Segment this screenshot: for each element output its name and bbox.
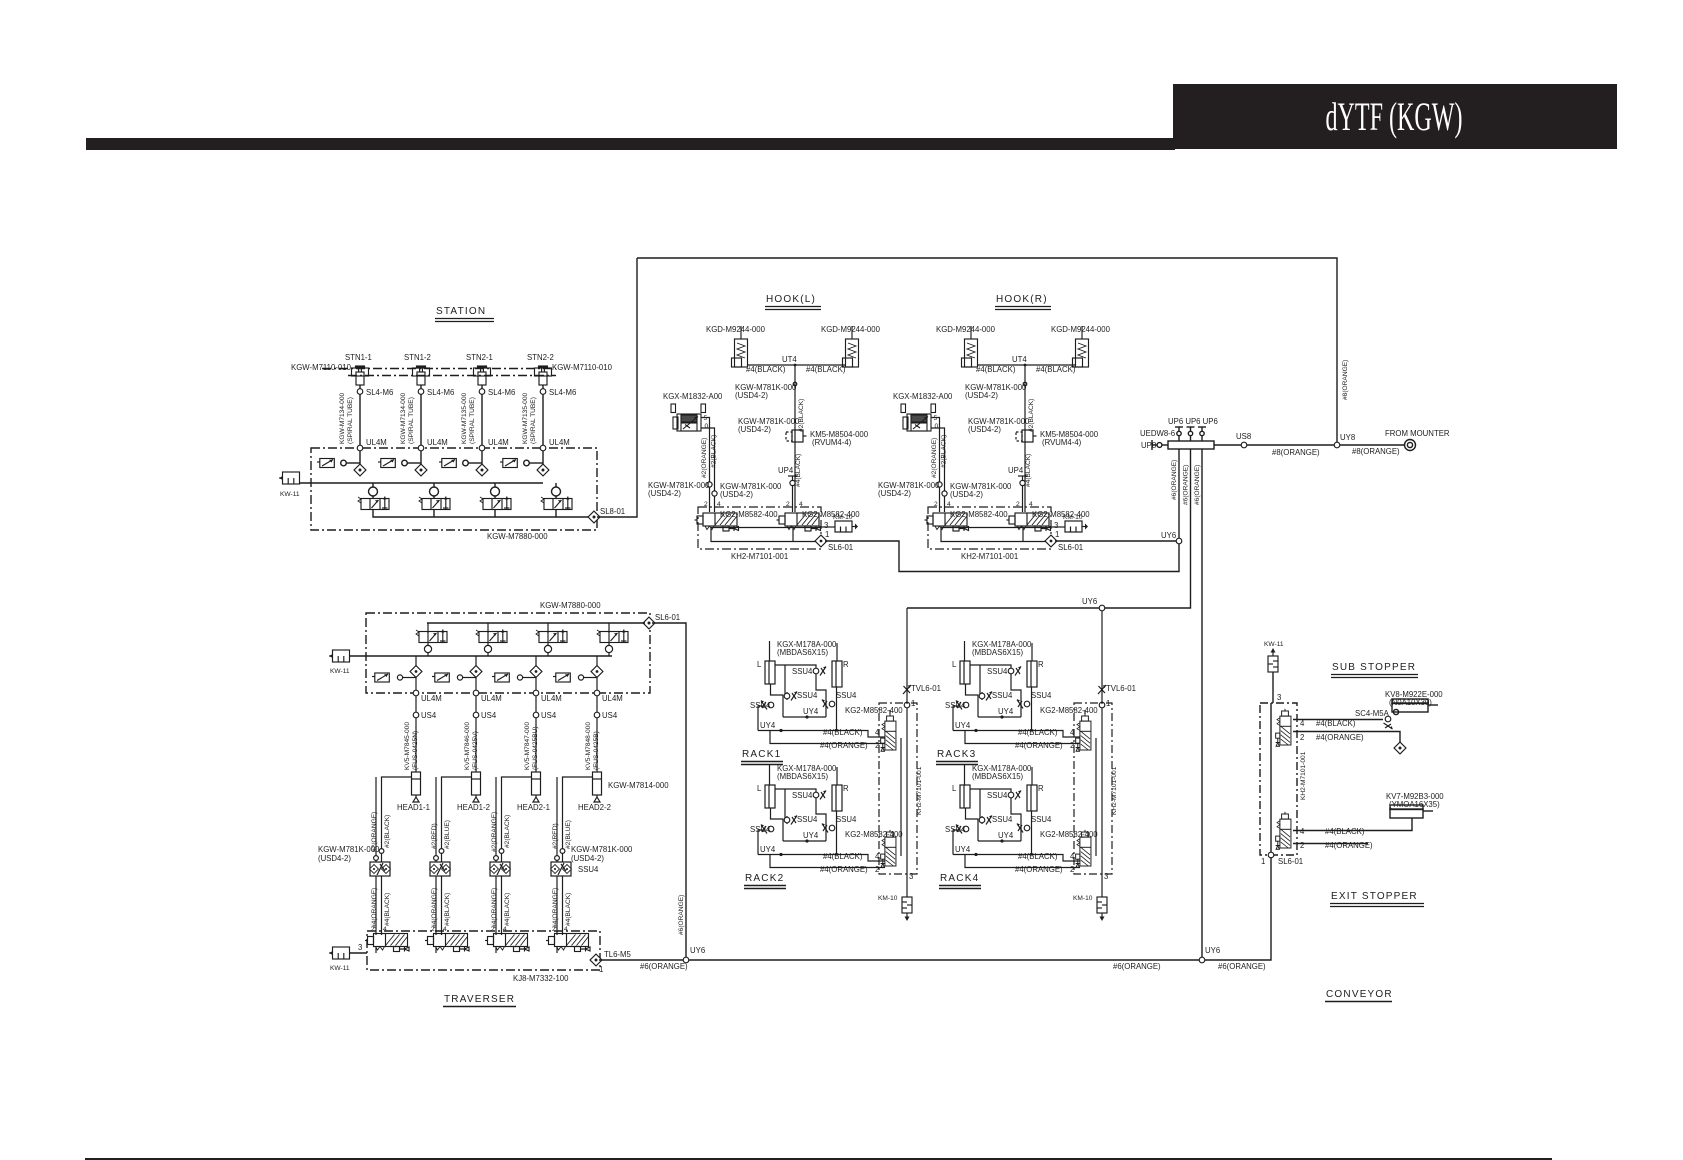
svg-text:KW-11: KW-11 xyxy=(280,491,300,498)
TRAVERSER column 1 xyxy=(365,623,447,953)
svg-text:(SPIRAL TUBE): (SPIRAL TUBE) xyxy=(347,397,354,444)
svg-text:KGW-M7134-000: KGW-M7134-000 xyxy=(400,392,407,444)
port TL6-M5 xyxy=(590,954,602,966)
svg-text:SL4-M6: SL4-M6 xyxy=(549,388,576,397)
svg-text:dYTF (KGW): dYTF (KGW) xyxy=(1326,94,1463,139)
svg-text:(FUS-0425B): (FUS-0425B) xyxy=(593,731,600,770)
svg-text:KGW-M7110-010: KGW-M7110-010 xyxy=(552,363,613,372)
label KGW-M781K-000 left xyxy=(318,845,380,863)
svg-text:2: 2 xyxy=(1300,733,1304,742)
svg-text:#6(ORANGE): #6(ORANGE) xyxy=(678,895,685,935)
wire HOOK(R) SL6-01 output to UY6 xyxy=(1055,540,1176,542)
svg-text:US4: US4 xyxy=(602,711,618,720)
svg-text:#4(BLACK): #4(BLACK) xyxy=(1316,719,1356,728)
svg-text:STN1-1: STN1-1 xyxy=(345,353,372,362)
svg-text:RACK3: RACK3 xyxy=(937,749,976,760)
svg-text:#4(ORANGE): #4(ORANGE) xyxy=(491,888,498,928)
svg-text:US4: US4 xyxy=(481,711,497,720)
manifold UEDW8-6 body xyxy=(1168,441,1214,449)
section title STATION xyxy=(435,306,494,322)
svg-text:4: 4 xyxy=(564,926,568,933)
STATION column 4 STN2-2 xyxy=(500,366,576,510)
svg-text:RACK1: RACK1 xyxy=(742,749,781,760)
svg-text:KV5-M7848-000: KV5-M7848-000 xyxy=(585,722,592,770)
svg-text:SUB STOPPER: SUB STOPPER xyxy=(1332,662,1416,673)
svg-text:HEAD2-1: HEAD2-1 xyxy=(517,803,550,812)
bottom valve dash-dot box KJ8-M7332-100 xyxy=(367,931,600,970)
svg-text:(N0A10X30): (N0A10X30) xyxy=(1389,698,1432,707)
svg-text:TRAVERSER: TRAVERSER xyxy=(444,994,515,1005)
section title RACK2 xyxy=(744,873,786,889)
node UL4M xyxy=(479,445,485,451)
RACK2 cluster xyxy=(750,764,885,874)
svg-text:#6(ORANGE): #6(ORANGE) xyxy=(1183,465,1190,505)
wire cylinder down xyxy=(542,385,544,470)
svg-text:UY8: UY8 xyxy=(1340,433,1355,442)
pilot solenoid xyxy=(500,459,517,468)
manifold dash-dot box KH2-M7101-001 xyxy=(1260,703,1297,855)
node SL4-M6 xyxy=(540,389,546,395)
top rule bar xyxy=(86,138,1175,150)
solenoid valve 5/2 xyxy=(480,497,511,510)
svg-text:#6(ORANGE): #6(ORANGE) xyxy=(1171,460,1178,500)
svg-text:RACK4: RACK4 xyxy=(940,873,979,884)
svg-text:US4: US4 xyxy=(541,711,557,720)
valve KG2 upper xyxy=(1276,709,1291,746)
svg-text:KH2-M7101-001: KH2-M7101-001 xyxy=(1300,751,1307,800)
pilot solenoid xyxy=(317,459,334,468)
svg-text:KJ8-M7332-100: KJ8-M7332-100 xyxy=(513,974,569,983)
svg-text:#4(BLACK): #4(BLACK) xyxy=(1325,827,1365,836)
manifold dash-dot box KGW-M7880-000 xyxy=(311,448,597,530)
inlet connector KW-11 xyxy=(279,472,300,484)
svg-text:STN1-2: STN1-2 xyxy=(404,353,431,362)
STATION column 2 STN1-2 xyxy=(378,366,454,510)
svg-text:KGW-M7880-000: KGW-M7880-000 xyxy=(487,532,548,541)
svg-text:(FUS-0425V): (FUS-0425V) xyxy=(472,731,479,770)
flow valve SC4-M5A xyxy=(1384,716,1393,729)
node UY6 xyxy=(1176,538,1182,544)
section title RACK1 xyxy=(741,749,783,765)
svg-text:KGW-M7134-000: KGW-M7134-000 xyxy=(339,392,346,444)
svg-text:#6(ORANGE): #6(ORANGE) xyxy=(1113,962,1161,971)
svg-text:#2(RED): #2(RED) xyxy=(552,823,559,849)
supply rail xyxy=(350,655,612,657)
cylinder KV7-M92B3-000 xyxy=(1390,805,1433,818)
svg-text:#8(ORANGE): #8(ORANGE) xyxy=(1272,448,1320,457)
wire UP6 third drop long to conveyor line xyxy=(1201,449,1203,957)
bottom rule xyxy=(85,1158,1552,1160)
svg-text:#4(ORANGE): #4(ORANGE) xyxy=(431,888,438,928)
wire bottom distribution line xyxy=(599,959,1199,961)
svg-text:#2(RED): #2(RED) xyxy=(431,823,438,849)
svg-text:#2(BLUE): #2(BLUE) xyxy=(565,820,572,849)
svg-text:#4(BLACK): #4(BLACK) xyxy=(565,893,572,926)
solenoid valve 5/2 xyxy=(358,497,389,510)
svg-text:#2(BLACK): #2(BLACK) xyxy=(384,815,391,848)
svg-text:1: 1 xyxy=(599,965,603,974)
svg-text:STN2-1: STN2-1 xyxy=(466,353,493,362)
svg-text:UL4M: UL4M xyxy=(549,438,570,447)
wire HOOK(L) SL6-01 output xyxy=(825,541,1179,572)
RACK3/4 valve column xyxy=(1040,608,1136,921)
svg-text:UL4M: UL4M xyxy=(488,438,509,447)
svg-text:#2(ORANGE): #2(ORANGE) xyxy=(371,812,378,852)
section title HOOK(R) xyxy=(995,294,1051,310)
svg-text:UP6 UP6 UP6: UP6 UP6 UP6 xyxy=(1168,417,1218,426)
svg-text:UEDW8-6: UEDW8-6 xyxy=(1140,429,1175,438)
svg-text:(USD4-2): (USD4-2) xyxy=(318,854,351,863)
svg-text:SL4-M6: SL4-M6 xyxy=(427,388,454,397)
node UL4M xyxy=(357,445,363,451)
svg-text:KGW-M7814-000: KGW-M7814-000 xyxy=(608,781,669,790)
svg-text:HEAD2-2: HEAD2-2 xyxy=(578,803,611,812)
svg-text:#6(ORANGE): #6(ORANGE) xyxy=(640,962,688,971)
svg-text:SL6-01: SL6-01 xyxy=(1278,857,1303,866)
svg-text:UY6: UY6 xyxy=(1205,946,1220,955)
svg-text:KGW-M7880-000: KGW-M7880-000 xyxy=(540,601,601,610)
inlet connector KW-11 xyxy=(329,650,350,662)
RACK4 cluster xyxy=(945,764,1080,874)
wire main supply rectangle top xyxy=(637,258,1337,445)
wire KW-11 to box xyxy=(1272,672,1274,703)
STATION column 3 STN2-1 xyxy=(439,366,515,510)
svg-text:HOOK(L): HOOK(L) xyxy=(766,294,816,305)
valve KG2 lower xyxy=(1276,812,1291,849)
muffler KW-11 xyxy=(1268,648,1278,672)
node 1 SL6-01 xyxy=(1268,852,1274,858)
svg-text:KGW-M781K-000: KGW-M781K-000 xyxy=(571,845,633,854)
svg-text:4: 4 xyxy=(383,926,387,933)
node USB xyxy=(1241,442,1247,448)
section title RACK4 xyxy=(939,873,981,889)
node SL4-M6 xyxy=(479,389,485,395)
RACK1 cluster xyxy=(750,640,885,750)
svg-text:#4(ORANGE): #4(ORANGE) xyxy=(552,888,559,928)
svg-text:KV5-M7846-000: KV5-M7846-000 xyxy=(464,722,471,770)
svg-text:#4(ORANGE): #4(ORANGE) xyxy=(1316,733,1364,742)
wire traverser riser xyxy=(652,623,686,957)
bottom collect rail xyxy=(373,510,594,517)
wire UP6 second drop to rack feed xyxy=(907,449,1191,608)
svg-text:(FUS-0425BU): (FUS-0425BU) xyxy=(532,726,539,770)
svg-text:4: 4 xyxy=(1300,719,1305,728)
solenoid valve 5/2 xyxy=(541,497,572,510)
TRAVERSER column 2 xyxy=(425,623,507,953)
svg-text:(YMOA16X35): (YMOA16X35) xyxy=(1389,800,1440,809)
svg-text:4: 4 xyxy=(503,926,507,933)
svg-text:HEAD1-1: HEAD1-1 xyxy=(397,803,430,812)
svg-text:HEAD1-2: HEAD1-2 xyxy=(457,803,490,812)
svg-text:3: 3 xyxy=(358,943,362,952)
inlet connector KW-11 bottom xyxy=(329,947,350,959)
node SL8-01 xyxy=(588,511,600,523)
svg-text:2: 2 xyxy=(371,926,375,933)
TRAVERSER column 3 xyxy=(485,623,567,953)
svg-text:UL4M: UL4M xyxy=(366,438,387,447)
check valve port xyxy=(354,464,366,476)
svg-text:KV5-M7847-000: KV5-M7847-000 xyxy=(524,722,531,770)
svg-text:UL4M: UL4M xyxy=(541,694,562,703)
svg-text:2: 2 xyxy=(431,926,435,933)
cylinder STN xyxy=(535,366,552,385)
svg-text:#8(ORANGE): #8(ORANGE) xyxy=(1342,360,1349,400)
manifold dash-dot box KGW-M7880-000 xyxy=(366,613,650,693)
HOOK(R) sub-circuit xyxy=(878,325,1111,561)
svg-text:(SPIRAL TUBE): (SPIRAL TUBE) xyxy=(408,397,415,444)
svg-text:US4: US4 xyxy=(421,711,437,720)
svg-text:3: 3 xyxy=(1277,693,1281,702)
svg-text:UL4M: UL4M xyxy=(602,694,623,703)
FROM MOUNTER connector xyxy=(1405,440,1416,451)
svg-text:#2(BLUE): #2(BLUE) xyxy=(444,820,451,849)
RACK1/2 valve column xyxy=(845,608,941,921)
svg-text:FROM MOUNTER: FROM MOUNTER xyxy=(1385,429,1450,438)
port UP8 connector xyxy=(1152,440,1162,450)
section title TRAVERSER xyxy=(443,994,516,1007)
wire to SC4-M5A and cylinder KV8 xyxy=(1293,719,1383,721)
svg-text:KGW-M7110-010: KGW-M7110-010 xyxy=(291,363,352,372)
svg-text:(USD4-2): (USD4-2) xyxy=(571,854,604,863)
svg-text:KW-11: KW-11 xyxy=(330,668,350,675)
node SL4-M6 xyxy=(418,389,424,395)
wire to cylinder KV7 xyxy=(1293,818,1412,831)
svg-text:(FUS-0425N): (FUS-0425N) xyxy=(412,731,419,770)
svg-text:STN2-2: STN2-2 xyxy=(527,353,554,362)
node UL4M xyxy=(418,445,424,451)
wire SL8-01 to supply riser xyxy=(597,258,637,517)
wire cylinder down xyxy=(359,385,361,470)
wire UP6 drops: first to UY6 node xyxy=(1178,449,1180,538)
svg-text:#4(ORANGE): #4(ORANGE) xyxy=(371,888,378,928)
port labels lower xyxy=(1300,827,1373,850)
svg-text:#4(BLACK): #4(BLACK) xyxy=(504,893,511,926)
node UY6 traverser xyxy=(683,957,689,963)
svg-text:EXIT STOPPER: EXIT STOPPER xyxy=(1331,891,1418,902)
node UY8 xyxy=(1334,442,1340,448)
regulator xyxy=(552,487,561,496)
wire cylinder down xyxy=(481,385,483,470)
node SL6-01 top xyxy=(643,617,655,629)
node UL4M xyxy=(540,445,546,451)
svg-text:TL6-M5: TL6-M5 xyxy=(604,950,632,959)
node SL4-M6 xyxy=(357,389,363,395)
section title CONVEYOR xyxy=(1325,989,1393,1002)
svg-text:2: 2 xyxy=(1300,841,1304,850)
svg-text:#4(ORANGE): #4(ORANGE) xyxy=(1325,841,1373,850)
svg-text:#2(BLACK): #2(BLACK) xyxy=(504,815,511,848)
svg-text:UY6: UY6 xyxy=(690,946,705,955)
svg-text:SC4-M5A: SC4-M5A xyxy=(1355,709,1390,718)
RACK3 cluster xyxy=(945,640,1080,750)
regulator xyxy=(491,487,500,496)
svg-text:#2(ORANGE): #2(ORANGE) xyxy=(491,812,498,852)
rail dash-dot lines xyxy=(322,368,556,370)
svg-text:#4(BLACK): #4(BLACK) xyxy=(444,893,451,926)
svg-text:CONVEYOR: CONVEYOR xyxy=(1326,989,1393,1000)
svg-text:(SPIRAL TUBE): (SPIRAL TUBE) xyxy=(469,397,476,444)
wire manifold to UY8 and FROM MOUNTER xyxy=(1214,444,1404,446)
section title EXIT STOPPER xyxy=(1330,891,1424,907)
port labels upper xyxy=(1300,719,1364,742)
regulator xyxy=(430,487,439,496)
svg-text:2: 2 xyxy=(552,926,556,933)
svg-text:4: 4 xyxy=(443,926,447,933)
section title SUB STOPPER xyxy=(1331,662,1418,678)
svg-text:SSU4: SSU4 xyxy=(578,865,599,874)
svg-text:4: 4 xyxy=(1300,827,1305,836)
node UY6 rack feed xyxy=(1099,605,1105,611)
svg-text:UL4M: UL4M xyxy=(421,694,442,703)
pilot solenoid xyxy=(378,459,395,468)
svg-text:SL4-M6: SL4-M6 xyxy=(366,388,393,397)
svg-text:UP8: UP8 xyxy=(1141,441,1156,450)
feed wire in box xyxy=(1270,703,1272,855)
check valve port xyxy=(415,464,427,476)
svg-text:#6(ORANGE): #6(ORANGE) xyxy=(1194,465,1201,505)
check valve port xyxy=(537,464,549,476)
TRAVERSER column 4 xyxy=(546,623,628,953)
svg-text:KV5-M7845-000: KV5-M7845-000 xyxy=(404,722,411,770)
regulator xyxy=(369,487,378,496)
pilot solenoid xyxy=(439,459,456,468)
svg-text:KW-11: KW-11 xyxy=(330,965,350,972)
svg-text:UL4M: UL4M xyxy=(427,438,448,447)
cylinder KV8-M922E-000 xyxy=(1392,699,1438,712)
node UY6 conveyor xyxy=(1199,957,1205,963)
svg-text:#6(ORANGE): #6(ORANGE) xyxy=(1218,962,1266,971)
svg-text:#8(ORANGE): #8(ORANGE) xyxy=(1352,447,1400,456)
svg-text:UY6: UY6 xyxy=(1082,597,1097,606)
supply rail in box xyxy=(299,482,543,484)
solenoid valve 5/2 xyxy=(419,497,450,510)
check valve port xyxy=(476,464,488,476)
svg-text:KW-11: KW-11 xyxy=(1264,641,1284,648)
section title RACK3 xyxy=(936,749,978,765)
svg-text:SL4-M6: SL4-M6 xyxy=(488,388,515,397)
svg-text:STATION: STATION xyxy=(436,306,486,317)
label KGW-M781K-000 right xyxy=(571,845,633,863)
cylinder STN xyxy=(352,366,369,385)
svg-text:RACK2: RACK2 xyxy=(745,873,784,884)
svg-text:SL8-01: SL8-01 xyxy=(600,507,625,516)
svg-text:HOOK(R): HOOK(R) xyxy=(996,294,1048,305)
cylinder STN xyxy=(413,366,430,385)
svg-text:2: 2 xyxy=(491,926,495,933)
svg-text:US8: US8 xyxy=(1236,432,1251,441)
svg-text:#4(BLACK): #4(BLACK) xyxy=(384,893,391,926)
svg-text:(SPIRAL TUBE): (SPIRAL TUBE) xyxy=(530,397,537,444)
section title HOOK(L) xyxy=(765,294,821,310)
manifold top stubs UP6 xyxy=(1175,427,1183,441)
wire cylinder down xyxy=(420,385,422,470)
cylinder STN xyxy=(474,366,491,385)
svg-text:UY6: UY6 xyxy=(1161,531,1176,540)
svg-text:UL4M: UL4M xyxy=(481,694,502,703)
svg-text:SL6-01: SL6-01 xyxy=(655,613,680,622)
HOOK(L) sub-circuit xyxy=(648,325,881,561)
svg-text:1: 1 xyxy=(1261,857,1265,866)
svg-text:KGW-M7135-000: KGW-M7135-000 xyxy=(522,392,529,444)
svg-text:KGW-M7135-000: KGW-M7135-000 xyxy=(461,392,468,444)
title block xyxy=(1173,84,1617,149)
